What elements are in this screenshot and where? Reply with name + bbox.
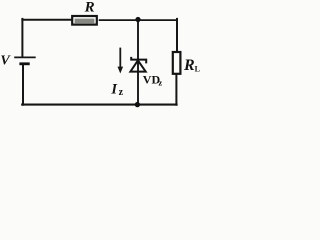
- svg-text:z: z: [119, 87, 124, 98]
- zener diode VDz: triangle (anode, pointing up): [130, 60, 145, 71]
- svg-text:L: L: [195, 64, 200, 73]
- wire right branch lower (RL to bottom-right corner): [175, 74, 177, 105]
- svg-text:R: R: [84, 0, 95, 16]
- junction node dot (top of zener branch): [135, 17, 140, 22]
- wire top: resistor R to top-right corner: [100, 19, 177, 21]
- zener diode VDz: cathode bar with bent ends: [131, 57, 146, 64]
- resistor R (box): [72, 16, 97, 25]
- Iz current arrow (down): [118, 48, 124, 74]
- svg-text:z: z: [158, 77, 162, 87]
- wire bottom net: [22, 104, 176, 106]
- wire top: left corner to resistor R: [22, 19, 73, 21]
- svg-text:R: R: [183, 57, 195, 74]
- wire zener branch (top node through diode to bottom node): [137, 20, 139, 105]
- battery V: short negative plate: [19, 62, 29, 65]
- battery V: long positive plate: [14, 56, 36, 58]
- wire left branch lower (battery to bottom-left corner): [22, 64, 24, 105]
- wire left branch upper (corner down to battery plate): [21, 19, 23, 57]
- wire right branch upper (top-right corner to RL): [176, 19, 178, 53]
- resistor RL (box): [173, 52, 181, 74]
- junction node dot (bottom of zener branch): [135, 102, 140, 107]
